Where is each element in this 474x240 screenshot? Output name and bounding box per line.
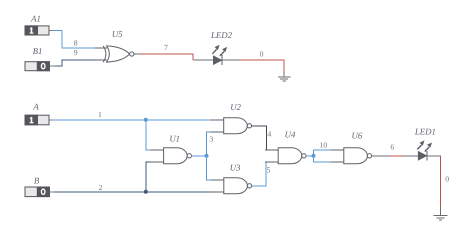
node junction net 1 <box>144 118 148 122</box>
wire gray stub LED2 anode <box>194 59 214 61</box>
nand gate U2 <box>211 118 252 134</box>
wire net 1 (A to U2 top input, branch to U1) <box>53 119 211 121</box>
wire net 0 (LED2 to ground) <box>239 60 284 72</box>
switch B1 <box>25 62 55 71</box>
svg-text:1: 1 <box>98 110 102 119</box>
svg-text:U6: U6 <box>352 131 363 141</box>
svg-text:3: 3 <box>209 135 213 144</box>
svg-text:7: 7 <box>164 43 168 52</box>
wire net 3 (U1 output to U2 and U3 inputs) <box>192 155 207 157</box>
svg-text:10: 10 <box>320 141 328 150</box>
svg-text:9: 9 <box>74 48 78 57</box>
wire net 5 (U3 output to U4 bottom input) <box>252 162 268 186</box>
svg-text:6: 6 <box>390 143 394 152</box>
wire net 6 (U6 output to LED1) <box>388 155 405 157</box>
wire gray stub LED2 cathode <box>222 59 240 61</box>
svg-text:5: 5 <box>267 166 271 175</box>
wire net 1 branch to U1 top input <box>146 120 151 150</box>
svg-text:B: B <box>34 176 40 186</box>
svg-text:U1: U1 <box>169 134 180 144</box>
switch A <box>25 115 53 125</box>
svg-text:B1: B1 <box>33 46 43 56</box>
wire net 2 (B to U3 bottom input, branch to U1) <box>55 191 211 193</box>
svg-text:LED1: LED1 <box>414 127 436 137</box>
wire net 7 (U5 output to LED2) <box>138 54 193 60</box>
svg-text:LED2: LED2 <box>210 30 233 40</box>
svg-text:A: A <box>32 102 39 112</box>
svg-text:8: 8 <box>74 39 78 48</box>
node junction net 2 <box>144 190 148 194</box>
switch A1 <box>25 26 52 35</box>
xnor gate U5 <box>95 46 134 62</box>
svg-text:U2: U2 <box>230 102 241 112</box>
wire net 10 tie bar <box>314 150 332 162</box>
wire gray stub U6 output <box>372 155 389 157</box>
svg-text:A1: A1 <box>30 14 41 24</box>
nand gate U1 <box>151 148 192 164</box>
wire net 0 (LED1 to ground) <box>440 156 442 206</box>
svg-text:4: 4 <box>267 129 271 138</box>
switch B <box>25 187 55 197</box>
wire net 8 (A1 to U5 top input) <box>52 30 97 48</box>
LED2 <box>212 45 227 65</box>
wire net 10 (U4 output to U6 tied inputs) <box>306 155 313 157</box>
wire gray stub LED1 anode <box>404 155 418 157</box>
nand gate U6 <box>331 148 372 164</box>
ground (top circuit) <box>278 72 290 81</box>
wire net 2 branch to U1 bottom input <box>146 162 151 192</box>
LED1 <box>417 140 432 160</box>
svg-text:U3: U3 <box>230 163 241 173</box>
nand gate U4 <box>265 148 306 164</box>
node junction net 10 <box>312 154 316 158</box>
svg-text:0: 0 <box>445 175 449 184</box>
wire net 9 (B1 to U5 bottom input) <box>55 60 97 66</box>
svg-text:U4: U4 <box>285 130 296 140</box>
svg-text:U5: U5 <box>112 29 123 39</box>
wire net 3 vertical <box>207 132 211 180</box>
wire gray stub LED1 cathode <box>427 155 441 157</box>
node junction net 3 <box>205 154 209 158</box>
ground (bottom circuit) <box>434 206 448 220</box>
nand gate U3 <box>211 178 252 194</box>
svg-text:0: 0 <box>260 50 264 59</box>
svg-text:2: 2 <box>99 183 103 192</box>
wire net 4 (U2 output to U4 top input) <box>252 126 268 150</box>
wire gray stub U5 output <box>134 53 139 55</box>
